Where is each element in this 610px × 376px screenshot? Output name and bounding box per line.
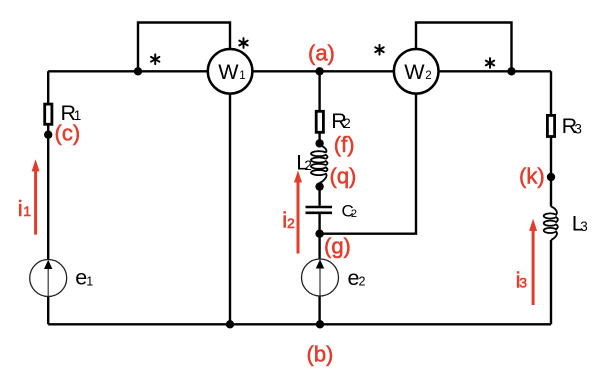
source e1 xyxy=(30,260,67,297)
wire W2 down to node g xyxy=(320,93,416,233)
label R2 xyxy=(331,109,351,133)
node a xyxy=(315,67,323,75)
source e2 xyxy=(302,259,339,296)
svg-text:W: W xyxy=(218,60,239,84)
svg-text:2: 2 xyxy=(425,70,431,82)
wattmeter W2 xyxy=(394,49,439,94)
current arrow i1 xyxy=(32,159,40,234)
wire W1 potential loop xyxy=(138,23,230,72)
svg-text:(c): (c) xyxy=(55,120,81,145)
label i1 xyxy=(18,196,31,221)
svg-text:(q): (q) xyxy=(330,164,357,189)
node junction W1 loop xyxy=(134,67,142,75)
svg-text:2: 2 xyxy=(359,274,366,288)
asterisk W1 top-right xyxy=(239,38,247,48)
asterisk W1 left xyxy=(151,54,159,64)
label C2 xyxy=(342,202,358,221)
node junction W2 right xyxy=(507,67,515,75)
svg-text:1: 1 xyxy=(239,70,245,82)
inductor L3 xyxy=(544,207,558,241)
inductor L2 xyxy=(311,145,328,183)
label i2 xyxy=(282,208,295,233)
current arrow i3 xyxy=(529,219,537,305)
svg-text:2: 2 xyxy=(304,158,312,173)
asterisk W2 right xyxy=(486,58,494,68)
label L3 xyxy=(572,212,588,236)
resistor R1 xyxy=(45,104,52,124)
svg-text:W: W xyxy=(404,60,425,84)
node g xyxy=(315,230,323,238)
label e1 xyxy=(75,266,93,290)
node f xyxy=(315,139,323,147)
wire W1 down branch xyxy=(229,93,231,324)
node k xyxy=(547,173,555,181)
resistor R3 xyxy=(547,115,554,136)
svg-text:2: 2 xyxy=(287,215,295,231)
wire left branch xyxy=(47,71,49,324)
node junction W1 bottom xyxy=(226,320,234,328)
label e2 xyxy=(348,266,366,290)
label R3 xyxy=(562,114,582,138)
svg-text:2: 2 xyxy=(343,116,351,131)
node q xyxy=(315,182,323,190)
wire middle branch C2-bottom xyxy=(318,214,320,324)
wire middle branch L2-C2 xyxy=(318,183,320,206)
svg-text:3: 3 xyxy=(519,274,527,290)
wire bottom bus xyxy=(48,323,551,325)
svg-text:(g): (g) xyxy=(324,234,351,259)
svg-text:(k): (k) xyxy=(519,163,545,188)
svg-text:(b): (b) xyxy=(307,342,334,367)
capacitor C2 xyxy=(306,207,333,213)
wire top bus xyxy=(48,70,551,72)
wire right branch lower xyxy=(550,240,552,324)
svg-text:1: 1 xyxy=(86,274,93,288)
wire middle branch upper xyxy=(318,71,320,145)
svg-text:3: 3 xyxy=(580,219,588,234)
node b xyxy=(316,320,324,328)
node c xyxy=(44,131,52,139)
svg-text:1: 1 xyxy=(23,203,31,219)
label L2 xyxy=(296,150,312,174)
wattmeter W1 xyxy=(208,49,253,94)
label i3 xyxy=(516,267,528,292)
current arrow i2 xyxy=(294,170,302,253)
svg-text:(a): (a) xyxy=(308,41,335,66)
svg-text:(f): (f) xyxy=(334,132,355,157)
svg-text:i: i xyxy=(18,196,23,221)
svg-text:3: 3 xyxy=(574,121,582,136)
svg-text:2: 2 xyxy=(351,208,357,220)
wire right branch upper xyxy=(550,71,552,206)
wire W2 potential loop xyxy=(416,23,512,72)
label R1 xyxy=(61,101,82,125)
resistor R2 xyxy=(316,111,323,132)
asterisk W2 left xyxy=(375,45,383,55)
